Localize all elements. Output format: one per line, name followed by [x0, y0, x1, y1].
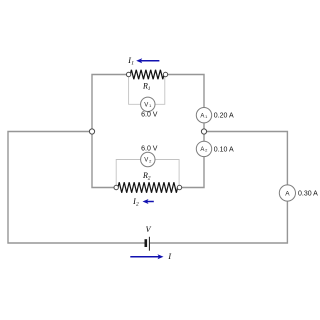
current arrow I (points right)	[130, 254, 163, 259]
wire from battery positive plate right, up right edge through ammeter A, across to node J2	[150, 132, 288, 244]
voltmeter V1	[141, 97, 155, 111]
svg-text:2: 2	[136, 202, 139, 208]
current arrow I1 (points left)	[136, 58, 159, 63]
svg-text:1: 1	[131, 61, 134, 67]
wire from R1 right node to ammeter column, down through A1, J2, A2 to R2 right node	[164, 75, 204, 188]
node J1 (left junction)	[89, 129, 94, 134]
battery V: thick short plate (left)	[145, 239, 148, 247]
voltmeter V2 branch wires	[116, 160, 179, 187]
svg-text:6.0 V: 6.0 V	[141, 146, 158, 153]
svg-text:2: 2	[148, 175, 151, 181]
svg-text:A: A	[285, 190, 290, 197]
svg-text:6.0 V: 6.0 V	[141, 112, 158, 119]
ammeter A2	[196, 141, 211, 156]
svg-text:V: V	[144, 103, 148, 109]
svg-text:A: A	[200, 147, 204, 153]
wire from node J1 up and right to R1 left node	[92, 75, 130, 132]
svg-text:V: V	[144, 158, 148, 164]
svg-text:0.20 A: 0.20 A	[214, 113, 234, 120]
wire from node J1 down and right to R2 left node	[92, 132, 118, 188]
svg-text:A: A	[200, 114, 204, 120]
voltmeter V2	[141, 152, 155, 166]
wire from node J1 left to edge, down and along bottom to battery negative plate	[8, 132, 145, 244]
resistor R2	[118, 182, 178, 193]
node J2 (between A1 and A2)	[201, 129, 206, 134]
node at R2 right	[177, 185, 181, 189]
ammeter A (main)	[279, 185, 295, 201]
svg-text:0.30 A: 0.30 A	[298, 190, 318, 197]
svg-text:I: I	[167, 252, 171, 261]
node at R2 left	[114, 185, 118, 189]
svg-text:0.10 A: 0.10 A	[214, 146, 234, 153]
battery V: thin long plate (right)	[149, 237, 150, 251]
svg-text:1: 1	[148, 86, 151, 92]
node at R1 right	[163, 72, 167, 76]
current arrow I2 (points left)	[143, 199, 154, 204]
node at R1 left	[126, 72, 130, 76]
resistor R1	[130, 70, 164, 79]
ammeter A1	[196, 108, 211, 123]
voltmeter V1 branch wires	[129, 76, 165, 104]
